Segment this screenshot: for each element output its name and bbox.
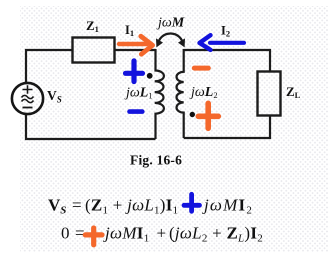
equation 1 term (Z1 + jωL1)I1 — [85, 196, 178, 217]
svg-text:0 =: 0 = — [61, 224, 85, 243]
wire ZL bottom to L2 bottom — [184, 116, 270, 138]
wire L1 bottom to source bottom — [26, 114, 156, 139]
annotation orange minus (L2 top) — [194, 66, 208, 71]
svg-text:jωMI2: jωMI2 — [202, 196, 253, 217]
svg-text:Z1: Z1 — [86, 18, 99, 34]
label I1 — [125, 23, 134, 38]
voltage source VS — [12, 83, 43, 114]
svg-text:Fig. 16-6: Fig. 16-6 — [130, 153, 182, 168]
svg-text:I1: I1 — [125, 23, 134, 38]
load impedance ZL — [258, 72, 281, 116]
inductor L2 — [176, 49, 183, 138]
equation 2 term jωMI1 — [103, 224, 150, 245]
label ZL — [286, 84, 301, 100]
svg-text:+: + — [157, 224, 167, 243]
equation 1 term VS — [48, 196, 66, 217]
svg-text:VS: VS — [47, 88, 62, 105]
svg-text:(Z1 + jωL1)I1: (Z1 + jωL1)I1 — [85, 196, 178, 217]
svg-text:I2: I2 — [221, 24, 230, 39]
label Z1 — [86, 18, 99, 34]
svg-text:jωM: jωM — [156, 16, 185, 31]
annotation orange plus (L2 bottom) — [198, 103, 218, 128]
wire Z1 to L1 — [115, 49, 156, 51]
impedance Z1 — [73, 38, 115, 63]
figure caption Fig. 16-6 — [130, 153, 182, 168]
equation 2 term 0 = — [61, 224, 85, 243]
polarity dot L2 — [190, 112, 195, 117]
svg-text:(jωL2 + ZL)I2: (jωL2 + ZL)I2 — [169, 224, 263, 245]
svg-text:jωMI1: jωMI1 — [103, 224, 150, 245]
annotation blue minus (L1 bottom) — [130, 109, 143, 114]
annotation orange plus (equation 2) — [85, 228, 102, 245]
svg-text:ZL: ZL — [286, 84, 301, 100]
wire top-left: source to Z1 — [26, 50, 72, 82]
label jωM — [156, 16, 185, 31]
inductor L1 — [155, 49, 164, 139]
current arrow I2 (blue) — [200, 35, 245, 50]
label VS — [47, 88, 62, 105]
label I2 — [221, 24, 230, 39]
current arrow I1 (orange) — [119, 36, 153, 54]
annotation blue plus (equation 1) — [184, 194, 200, 211]
wire L2 to ZL — [184, 50, 270, 71]
mutual coupling arc jωM — [156, 34, 185, 48]
svg-text:jωL2: jωL2 — [189, 85, 218, 100]
equation 2 term (jωL2 + ZL)I2 — [169, 224, 263, 245]
label jωL1 — [124, 86, 153, 101]
svg-text:jωL1: jωL1 — [124, 86, 153, 101]
equation 1 term jωMI2 — [202, 196, 253, 217]
svg-text:=: = — [72, 196, 82, 215]
polarity dot L1 — [147, 73, 153, 79]
equation 1 equals sign — [72, 196, 82, 215]
svg-text:VS: VS — [48, 196, 66, 217]
equation 2 plus sign — [157, 224, 167, 243]
annotation blue plus (L1 top) — [126, 61, 143, 82]
label jωL2 — [189, 85, 218, 100]
